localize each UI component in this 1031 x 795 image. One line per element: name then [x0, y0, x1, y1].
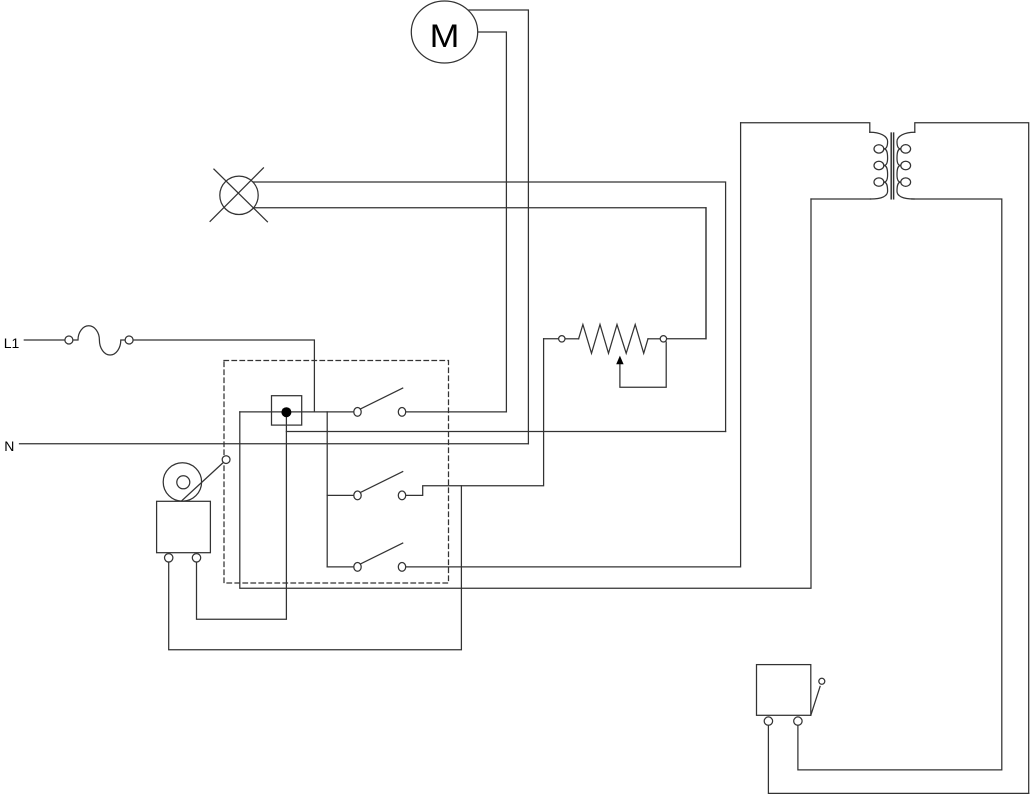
wire fuse to L1 drop	[133, 340, 314, 412]
bell H1 striker arm	[182, 456, 231, 501]
svg-text:N: N	[4, 438, 14, 454]
wire dot box row (terminal row to switch S1)	[240, 411, 354, 413]
wire switch S3 left lead	[327, 566, 354, 568]
wire rheostat inner left lead	[565, 338, 579, 340]
wire motor top lead down to N	[469, 10, 528, 444]
wire left loop: dot box left down and across to transformer primary bottom	[240, 199, 811, 588]
terminal block with junction dot	[272, 396, 302, 425]
transformer T1 secondary coil	[897, 132, 915, 199]
wire motor right lead down to switch S1	[478, 32, 507, 412]
wire branch from S2 step down to bell left terminal	[169, 486, 462, 650]
dashed enclosure box	[224, 361, 449, 584]
wire rheostat inner right lead	[648, 338, 660, 340]
lamp E1	[210, 168, 267, 222]
wire transformer secondary bottom lead down to switch S4 right terminal	[798, 199, 1002, 770]
wire transformer primary bottom lead	[811, 198, 871, 200]
relay switch S4 terminal left	[764, 717, 772, 725]
fuse F1	[65, 326, 133, 355]
bell H1 gong	[163, 463, 201, 501]
motor M1	[411, 1, 477, 63]
wire switch S2 right lead step up to rheostat left drop	[406, 339, 544, 496]
svg-text:L1: L1	[4, 335, 20, 351]
bell terminal right	[192, 554, 200, 562]
wire rheostat right lead up to lamp bottom wire	[667, 208, 706, 339]
rheostat R1 zigzag	[559, 325, 667, 354]
wire switch S3 right lead to transformer primary top drop	[406, 123, 741, 567]
wire y=431.5 from dot junction to lamp drop	[286, 431, 725, 433]
wire lamp top lead to drop at x=725.6	[252, 182, 725, 432]
wire dot down to bell right terminal	[197, 412, 287, 619]
switch S2	[354, 472, 406, 500]
wire switch column vertical	[326, 412, 328, 567]
relay switch S4 terminal right	[794, 717, 802, 725]
transformer T1 core bars	[891, 133, 893, 199]
wire lamp bottom lead down to rheostat right terminal	[253, 208, 706, 339]
rheostat R1 wiper arrow	[616, 342, 666, 387]
relay switch S4 lever	[811, 678, 825, 715]
switch S3	[354, 543, 406, 571]
wire switch S2 left lead	[327, 494, 354, 496]
wire transformer secondary top lead down right edge	[915, 123, 1029, 794]
bell terminal left	[165, 554, 173, 562]
wire bottom edge to switch S4 left terminal	[768, 725, 1028, 793]
wire N horizontal	[20, 443, 529, 445]
switch S1	[354, 388, 406, 416]
wire transformer primary top lead	[741, 123, 870, 133]
wire rheostat left lead	[544, 338, 559, 340]
transformer T1 primary coil	[870, 132, 888, 199]
wire L1 line	[24, 339, 65, 341]
wire switch S1 right lead up to motor drop	[406, 411, 507, 413]
relay switch S4 body box	[757, 665, 811, 716]
bell H1 body box	[157, 501, 211, 552]
svg-text:M: M	[430, 18, 460, 54]
